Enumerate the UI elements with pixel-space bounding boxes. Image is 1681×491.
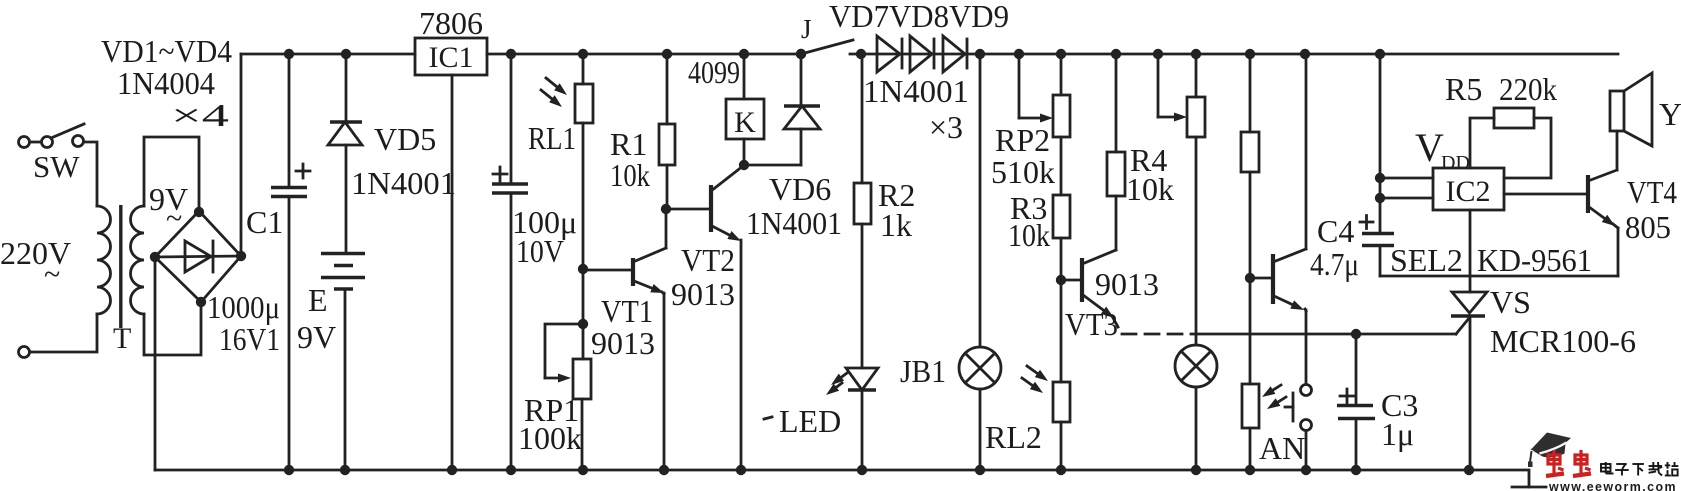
label 510k	[991, 154, 1055, 190]
wire VT3 base	[1061, 279, 1080, 282]
wire VT4 collector	[1616, 131, 1619, 170]
wire VT5 emitter	[1305, 309, 1306, 384]
wire IC2 left pin upper	[1380, 177, 1433, 180]
capacitor C3	[1337, 334, 1375, 475]
node VT5 base	[1245, 273, 1255, 283]
wire bottom rail tail	[1512, 486, 1546, 489]
label 1000u	[207, 289, 280, 325]
terminal 220V line top	[19, 137, 30, 148]
svg-text:VD7VD8VD9: VD7VD8VD9	[829, 0, 1009, 34]
label J	[801, 14, 812, 44]
svg-text:1N4001: 1N4001	[351, 165, 456, 201]
svg-text:10V: 10V	[516, 233, 564, 269]
label SEL2	[1390, 242, 1463, 278]
label RL1	[528, 120, 576, 156]
svg-text:LED: LED	[779, 403, 841, 439]
capacitor 100u	[492, 49, 528, 475]
label VD6	[769, 171, 831, 207]
wire VT2 base	[666, 208, 709, 211]
svg-text:×4: ×4	[171, 97, 229, 133]
svg-text:VT4: VT4	[1627, 174, 1677, 210]
label VT1	[601, 293, 653, 329]
label E	[308, 282, 328, 318]
svg-text:IC2: IC2	[1446, 175, 1491, 208]
label 805	[1625, 209, 1671, 245]
photoresistor RL2	[1022, 280, 1070, 475]
label R5	[1445, 71, 1482, 107]
wire bottom terminal to primary	[30, 314, 97, 352]
label x4	[171, 97, 229, 133]
capacitor C4	[1360, 216, 1394, 277]
label R4	[1130, 142, 1167, 178]
svg-text:10k: 10k	[1008, 217, 1050, 253]
wire RL1 to RP1	[582, 269, 585, 359]
transistor VT3	[1082, 250, 1118, 327]
svg-text:C1: C1	[246, 204, 283, 240]
svg-text:T: T	[113, 322, 131, 355]
bridge rectifier VD1~VD4	[150, 207, 246, 307]
wire IC2 left pin lower	[1380, 197, 1433, 200]
node VT3 base	[1056, 275, 1066, 285]
label 220V	[0, 235, 71, 291]
svg-text:AN: AN	[1259, 430, 1305, 466]
svg-text:VD1~VD4: VD1~VD4	[101, 33, 232, 69]
LED	[826, 368, 878, 475]
transformer T primary winding	[97, 206, 111, 314]
wire bridge minus to bottom rail	[154, 257, 157, 470]
battery E	[321, 254, 365, 476]
watermark chongchong red	[1546, 450, 1591, 476]
svg-text:9013: 9013	[1095, 266, 1159, 302]
label C3	[1381, 387, 1418, 423]
potentiometer RP2	[1053, 49, 1070, 195]
wire RP2 wiper	[1014, 49, 1053, 123]
terminal 220V line bottom	[19, 347, 30, 358]
label RP1	[524, 392, 579, 428]
relay K	[726, 49, 764, 165]
svg-text:RL2: RL2	[985, 419, 1042, 455]
label 1N4001 VD6	[746, 205, 842, 241]
svg-text:VT1: VT1	[601, 293, 653, 329]
switch SW	[30, 124, 84, 148]
label 10k R4	[1126, 171, 1174, 207]
label VDD	[1415, 125, 1470, 174]
label JB1	[900, 353, 946, 389]
transistor VT1	[633, 209, 666, 294]
svg-text:SW: SW	[33, 149, 80, 184]
transistor VT2	[711, 166, 743, 241]
label 1N4001 x3	[863, 73, 969, 109]
label KD-9561	[1477, 242, 1592, 278]
label 100k	[518, 420, 582, 456]
node R1-VT2 base	[661, 204, 671, 214]
wire VT2 emitter	[736, 240, 746, 475]
label SW	[33, 149, 80, 184]
diode VD8	[910, 36, 934, 72]
label T	[113, 322, 131, 355]
wire bottom rail	[155, 470, 1529, 487]
node J right	[856, 49, 866, 59]
wire VT5 base	[1250, 277, 1271, 280]
svg-text:JB1: JB1	[900, 353, 946, 389]
potentiometer RP1	[573, 359, 591, 475]
label 7806	[419, 5, 483, 41]
label VD5	[374, 121, 436, 157]
lamp 2	[1175, 345, 1217, 475]
label R3	[1010, 190, 1047, 226]
wire VT1 base	[583, 269, 631, 272]
label 9013 VT2	[671, 276, 735, 312]
wire top rail mid	[487, 53, 801, 56]
label 10k R3	[1008, 217, 1050, 253]
svg-text:510k: 510k	[991, 154, 1055, 190]
svg-text:E: E	[308, 282, 328, 318]
svg-text:7806: 7806	[419, 5, 483, 41]
wire VS gate	[1196, 317, 1470, 334]
label x3	[929, 109, 963, 145]
svg-text:VT3: VT3	[1065, 306, 1118, 342]
svg-text:16V1: 16V1	[219, 321, 280, 357]
label LED	[764, 403, 841, 439]
label 1u	[1381, 416, 1414, 452]
wire RP1 wiper loop	[545, 324, 583, 383]
svg-text:V: V	[1415, 125, 1444, 170]
label RL2	[985, 419, 1042, 455]
wire secondary top to bridge top	[144, 137, 199, 212]
watermark url	[1548, 479, 1677, 491]
label VT3	[1065, 306, 1118, 342]
svg-text:1N4001: 1N4001	[746, 205, 842, 241]
svg-text:Y: Y	[1659, 96, 1681, 132]
label RP2	[995, 122, 1050, 158]
svg-text:RP2: RP2	[995, 122, 1050, 158]
svg-text:220k: 220k	[1499, 71, 1557, 107]
label VD1~VD4	[101, 33, 232, 69]
node IC2 pin upper	[1375, 173, 1385, 183]
resistor top AN branch	[1241, 49, 1259, 278]
svg-text:MCR100-6: MCR100-6	[1490, 323, 1636, 359]
wire VT1 emitter	[659, 293, 669, 475]
label Y	[1659, 96, 1681, 132]
label 16V1	[219, 321, 280, 357]
label 9V battery	[297, 319, 336, 355]
capacitor C1	[271, 49, 310, 475]
transistor VT4	[1588, 170, 1618, 228]
wire bridge plus to top rail	[240, 54, 243, 256]
svg-text:100k: 100k	[518, 420, 582, 456]
photoresistor RL1	[541, 49, 593, 269]
wire IC2 to VT4 base	[1504, 193, 1586, 196]
label 4.7u	[1310, 246, 1359, 282]
node RP1 wiper tap	[578, 319, 588, 329]
wire IC2 bottom pin	[1469, 210, 1472, 292]
wire IC2 top pin	[1470, 118, 1494, 168]
svg-text:KD-9561: KD-9561	[1477, 242, 1592, 278]
node C3 top	[1351, 329, 1361, 339]
wire VT4 emitter	[1617, 228, 1620, 276]
svg-text:VD5: VD5	[374, 121, 436, 157]
label 100u	[512, 204, 577, 240]
svg-text:9013: 9013	[671, 276, 735, 312]
wire secondary bottom to bridge bottom	[144, 302, 201, 355]
label MCR100-6	[1490, 323, 1636, 359]
svg-text:1k: 1k	[880, 207, 912, 243]
svg-text:~: ~	[44, 258, 60, 291]
photoresistor AN branch	[1242, 278, 1286, 475]
wire dashed VT3 emitter to lamp	[1122, 333, 1194, 336]
label VT4	[1627, 174, 1677, 210]
transformer T secondary winding	[131, 206, 145, 314]
label 10V	[516, 233, 564, 269]
pushbutton AN	[1285, 385, 1312, 476]
diode VD7	[877, 36, 902, 72]
label VS	[1490, 284, 1531, 320]
label 9013 VT3	[1095, 266, 1159, 302]
label 220k	[1499, 71, 1557, 107]
svg-text:RL1: RL1	[528, 120, 576, 156]
label VD7VD8VD9	[829, 0, 1009, 34]
svg-text:220V: 220V	[0, 235, 71, 271]
diode VD5	[328, 49, 362, 253]
speaker Y	[1610, 73, 1652, 146]
svg-text:9V: 9V	[297, 319, 336, 355]
svg-text:www.eeworm.com: www.eeworm.com	[1548, 479, 1677, 491]
svg-text:1000μ: 1000μ	[207, 289, 280, 325]
resistor R4	[1107, 49, 1125, 250]
svg-text:SEL2: SEL2	[1390, 242, 1463, 278]
svg-text:9013: 9013	[591, 325, 655, 361]
node IC2 pin lower	[1375, 193, 1385, 203]
potentiometer lamp2	[1187, 49, 1205, 345]
svg-text:1μ: 1μ	[1381, 416, 1414, 452]
regulator IC1	[415, 38, 487, 75]
label C4	[1317, 213, 1354, 249]
wire lamp2 wiper	[1153, 49, 1187, 122]
lamp JB1	[959, 49, 1001, 475]
label 10k R1	[610, 157, 650, 193]
label AN	[1259, 430, 1305, 466]
label 1N4004	[117, 65, 215, 101]
label 1N4001 VD5	[351, 165, 456, 201]
wire top rail left	[241, 53, 415, 56]
svg-text:VD6: VD6	[769, 171, 831, 207]
label C1	[246, 204, 283, 240]
svg-text:10k: 10k	[610, 157, 650, 193]
wire switch to transformer primary	[84, 142, 97, 206]
label 4099	[688, 54, 740, 90]
watermark cap icon	[1528, 433, 1571, 468]
contact J	[796, 40, 853, 59]
watermark site name	[1601, 462, 1678, 476]
svg-text:4.7μ: 4.7μ	[1310, 246, 1359, 282]
wire IC1 ground pin	[447, 75, 457, 475]
label VT2	[681, 242, 735, 278]
svg-text:10k: 10k	[1126, 171, 1174, 207]
svg-text:4099: 4099	[688, 54, 740, 90]
svg-text:VS: VS	[1490, 284, 1531, 320]
node K bottom	[739, 160, 749, 170]
svg-text:1N4001: 1N4001	[863, 73, 969, 109]
svg-text:805: 805	[1625, 209, 1671, 245]
wire top rail right	[850, 53, 1618, 56]
wire VT5 collector	[1300, 49, 1310, 249]
label R2	[878, 177, 915, 213]
label 9V secondary	[149, 181, 188, 235]
label R1	[610, 126, 647, 162]
thyristor VS	[1451, 292, 1487, 475]
transformer core	[119, 205, 122, 328]
svg-text:R5: R5	[1445, 71, 1482, 107]
svg-text:DD: DD	[1441, 152, 1470, 174]
svg-text:×3: ×3	[929, 109, 963, 145]
svg-text:1N4004: 1N4004	[117, 65, 215, 101]
label 1k	[880, 207, 912, 243]
svg-text:J: J	[801, 14, 812, 44]
svg-text:K: K	[734, 106, 756, 139]
svg-text:IC1: IC1	[429, 41, 474, 74]
resistor R3	[1053, 195, 1070, 280]
diode VD9	[943, 36, 967, 72]
svg-text:C4: C4	[1317, 213, 1354, 249]
chip IC2	[1433, 168, 1504, 210]
diode VD6	[744, 49, 820, 165]
resistor R2	[854, 54, 871, 368]
transistor VT5	[1273, 249, 1306, 310]
resistor R5	[1494, 108, 1551, 178]
node RL1-VT1 base	[578, 264, 588, 274]
resistor R1	[659, 49, 675, 209]
svg-text:VT2: VT2	[681, 242, 735, 278]
wire C4 to VT4 emitter	[1380, 275, 1618, 278]
label 9013 VT1	[591, 325, 655, 361]
wire C4 branch top	[1375, 49, 1385, 233]
